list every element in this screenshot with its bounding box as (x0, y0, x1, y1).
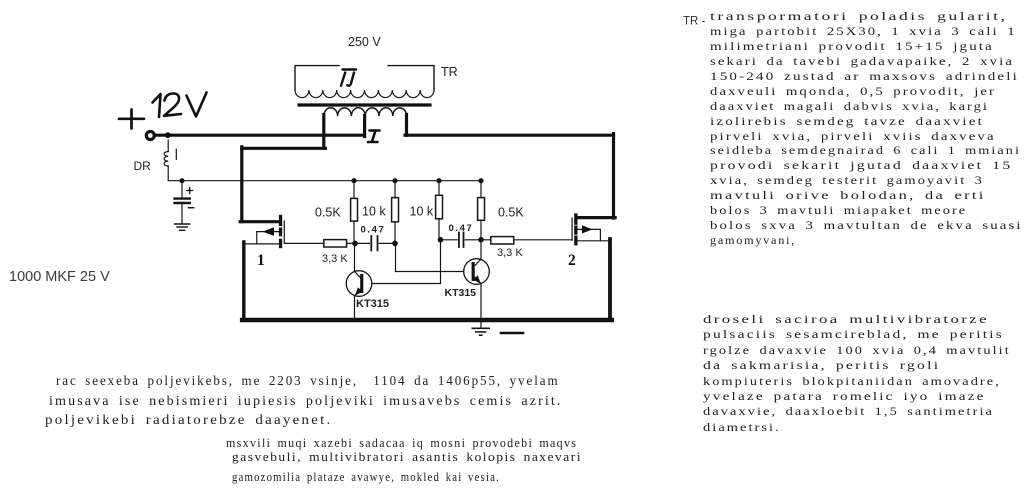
svg-text:DR: DR (134, 159, 152, 173)
svg-text:3,3 K: 3,3 K (497, 247, 523, 259)
svg-text:1000 MKF 25 V: 1000 MKF 25 V (9, 269, 110, 285)
svg-text:250 V: 250 V (348, 35, 381, 49)
svg-text:TR: TR (441, 65, 458, 79)
svg-text:0.47: 0.47 (361, 225, 386, 236)
svg-text:10 k: 10 k (410, 205, 434, 219)
svg-text:10 k: 10 k (362, 205, 386, 219)
svg-text:3,3 K: 3,3 K (322, 253, 348, 265)
svg-text:TR -: TR - (683, 16, 706, 28)
svg-text:0.5K: 0.5K (315, 206, 341, 220)
svg-text:KT315: KT315 (445, 287, 477, 299)
svg-text:2: 2 (568, 252, 576, 269)
svg-text:KT315: KT315 (356, 298, 389, 310)
svg-text:0.5K: 0.5K (498, 206, 524, 220)
svg-text:0.47: 0.47 (449, 223, 474, 234)
svg-text:1: 1 (257, 252, 265, 269)
